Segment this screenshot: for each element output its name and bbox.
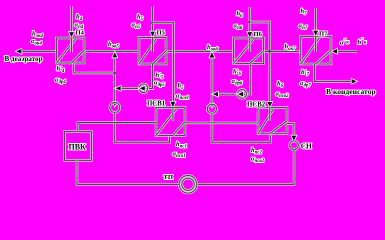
wire steam extraction 5 bbox=[151, 7, 153, 33]
arrow into drain pump 2 bbox=[210, 104, 213, 108]
label alpha_psv2 drain bbox=[251, 156, 265, 165]
arrow to deaerator bbox=[16, 49, 21, 54]
arrow riser 1 into main line bbox=[112, 52, 117, 57]
label h7 bbox=[301, 8, 308, 17]
wire drain riser 1 lower bbox=[115, 113, 170, 143]
label alpha_p6 bbox=[234, 22, 243, 31]
node extraction 5 branch bbox=[151, 21, 154, 24]
label P7 bbox=[319, 31, 328, 38]
svg-text:П6: П6 bbox=[254, 31, 263, 38]
label h_ps1 drain bbox=[176, 141, 187, 150]
drain pump 1 bbox=[110, 103, 120, 113]
wire main condensate line (condenser-P7) bbox=[331, 50, 357, 52]
arrow steam into P5 bbox=[150, 32, 155, 37]
arrow to condenser bbox=[352, 79, 357, 84]
label alpha_psv1 steam bbox=[176, 93, 189, 102]
svg-text:ПВК: ПВК bbox=[69, 143, 87, 152]
label alpha_psv1 drain bbox=[173, 150, 186, 159]
label h6 steam PSV2 bbox=[277, 80, 284, 89]
peak boiler PVK bbox=[64, 132, 91, 161]
wire SN to TP line bbox=[197, 150, 294, 185]
network heater PSV2 bbox=[258, 108, 287, 134]
heater P7 bbox=[301, 37, 331, 65]
label alpha_p7 bbox=[299, 23, 308, 32]
svg-text:В конденсатор: В конденсатор bbox=[326, 87, 376, 96]
label h_ps2 drain bbox=[251, 147, 262, 156]
label alpha_p4 bbox=[75, 21, 84, 30]
arrow at valve P5 bbox=[140, 86, 145, 91]
heater P5 bbox=[139, 38, 166, 65]
valve P6 drain bbox=[238, 90, 247, 99]
label alpha_dr5 bbox=[154, 79, 165, 88]
label V condenser bbox=[326, 87, 376, 96]
label TP bbox=[164, 174, 174, 181]
svg-text:П4: П4 bbox=[76, 29, 85, 36]
wire drain riser 2 lower bbox=[212, 113, 270, 142]
arrow into network pump SN bbox=[292, 136, 297, 141]
label h5 steam PSV1 bbox=[178, 82, 185, 91]
label PSV2 bbox=[247, 102, 266, 109]
label h_ok5 bbox=[108, 41, 120, 50]
label h5 bbox=[137, 13, 144, 22]
wire TP to PVK bbox=[77, 160, 179, 184]
arrow riser 2 into main line bbox=[210, 52, 215, 57]
wire network water PSV1-PSV2 bbox=[185, 122, 258, 124]
svg-text:ПСВ1: ПСВ1 bbox=[147, 100, 166, 107]
arrow steam into P7 bbox=[313, 31, 318, 36]
wire steam extraction 6 bbox=[249, 7, 251, 33]
arrow at valve P6 bbox=[238, 92, 243, 97]
heat consumer TP bbox=[179, 176, 197, 194]
wire drain riser 2 upper bbox=[211, 52, 213, 104]
valve P5 drain bbox=[139, 84, 148, 93]
label SN bbox=[301, 142, 312, 150]
arrow steam into PSV2 bbox=[267, 102, 272, 107]
wire main condensate line (P6-P7) bbox=[264, 50, 301, 52]
arrow steam into PSV1 bbox=[171, 102, 176, 107]
heater P4 bbox=[57, 38, 85, 63]
label P4 bbox=[76, 29, 85, 36]
svg-text:ПСВ2: ПСВ2 bbox=[247, 102, 266, 109]
label V deaerator bbox=[5, 55, 43, 63]
wire main condensate line (P5-P6) bbox=[166, 50, 234, 52]
label h_ok6 bbox=[207, 44, 219, 53]
heater P6 bbox=[234, 38, 264, 64]
drain pump 2 bbox=[207, 104, 216, 113]
arrow steam into P6 bbox=[247, 32, 252, 37]
label h'6 bbox=[233, 68, 242, 77]
wire steam extraction 4 bbox=[70, 7, 72, 34]
label h'4 bbox=[57, 65, 66, 74]
wire P4 drain bbox=[74, 63, 115, 73]
label h_k bbox=[358, 39, 367, 46]
svg-text:В деаэратор: В деаэратор bbox=[5, 55, 43, 63]
label h4 bbox=[76, 13, 83, 22]
arrow into P7 bbox=[332, 49, 337, 54]
arrow P5 drain into riser bbox=[116, 86, 121, 91]
label h_ok7 bbox=[285, 44, 297, 53]
wire P7 drain bbox=[315, 64, 353, 81]
label PSV1 bbox=[147, 100, 166, 107]
svg-text:ТП: ТП bbox=[164, 174, 174, 181]
label alpha_psv2 steam bbox=[276, 90, 290, 99]
wire drain riser 1 upper bbox=[114, 52, 116, 103]
label alpha_p5 bbox=[132, 22, 141, 31]
label alpha_ok4 bbox=[31, 38, 42, 47]
label h_ok4 bbox=[32, 30, 44, 39]
wire steam branch to PSV1 bbox=[153, 23, 174, 103]
label alpha_dr4 bbox=[55, 76, 66, 85]
wire network water PVK-PSV1 bbox=[78, 123, 156, 132]
label alpha_dr7 bbox=[300, 80, 311, 89]
svg-text:П5: П5 bbox=[157, 29, 166, 36]
arrow into drain pump 1 bbox=[113, 102, 116, 106]
wire main condensate line (deaerator-P4) bbox=[17, 50, 57, 52]
label P6 bbox=[254, 31, 263, 38]
node P4 drain junction bbox=[113, 72, 116, 75]
label h'5 bbox=[156, 72, 165, 81]
wire main condensate line (P4-P5) bbox=[84, 50, 139, 52]
label P5 bbox=[157, 29, 166, 36]
svg-text:СН: СН bbox=[301, 142, 312, 150]
label PVK bbox=[69, 143, 87, 152]
wire steam extraction 7 bbox=[315, 8, 317, 31]
network pump SN bbox=[290, 141, 299, 150]
wire P6 drain bbox=[213, 64, 251, 95]
wire P5 drain bbox=[116, 64, 153, 88]
label h'7 bbox=[301, 69, 310, 78]
label alpha_k bbox=[340, 39, 349, 46]
network heater PSV1 bbox=[156, 108, 185, 136]
arrow steam into P4 bbox=[69, 32, 74, 37]
label alpha_dr6 bbox=[232, 78, 243, 87]
node extraction 6 branch bbox=[248, 21, 251, 24]
arrow P6 drain into riser bbox=[213, 92, 218, 97]
label h6 bbox=[237, 11, 244, 20]
node crossing main line bbox=[268, 50, 271, 53]
wire steam branch to PSV2 bbox=[250, 22, 270, 103]
svg-text:П7: П7 bbox=[319, 31, 328, 38]
wire network water PSV2-SN bbox=[287, 123, 294, 138]
